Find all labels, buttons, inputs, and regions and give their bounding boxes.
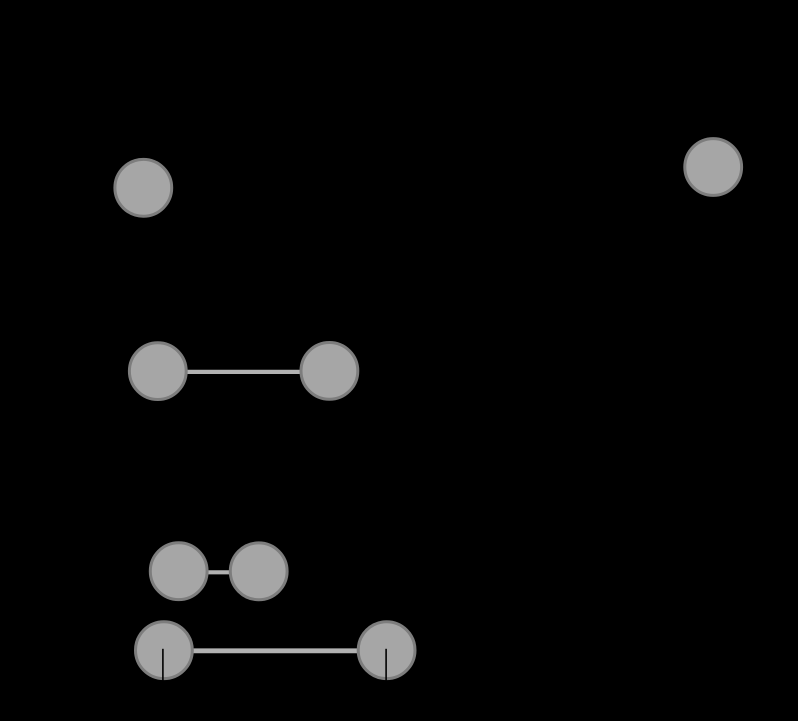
bond B2 (short bond, compressed diatomic molecule) [179,570,259,574]
atom A8 (stretched diatomic molecule right) [358,622,415,679]
atom A7 (stretched diatomic molecule left) [136,622,193,679]
radius marker M2 (rotation indicator in atom A8) [385,649,387,681]
bond B3 (stretched diatomic molecule, bottom row) [164,648,387,653]
atom A2 (monatomic molecule, top right) [685,139,742,196]
atom A3 (diatomic molecule left, middle row) [129,343,186,400]
atom A5 (compressed diatomic molecule left) [150,543,207,600]
radius marker M1 (rotation indicator in atom A7) [162,649,164,681]
atom A1 (monatomic molecule, top left) [115,159,172,216]
bond B1 (diatomic molecule, middle row) [158,370,330,374]
atom A6 (compressed diatomic molecule right) [230,543,287,600]
atom A4 (diatomic molecule right, middle row) [301,343,358,400]
